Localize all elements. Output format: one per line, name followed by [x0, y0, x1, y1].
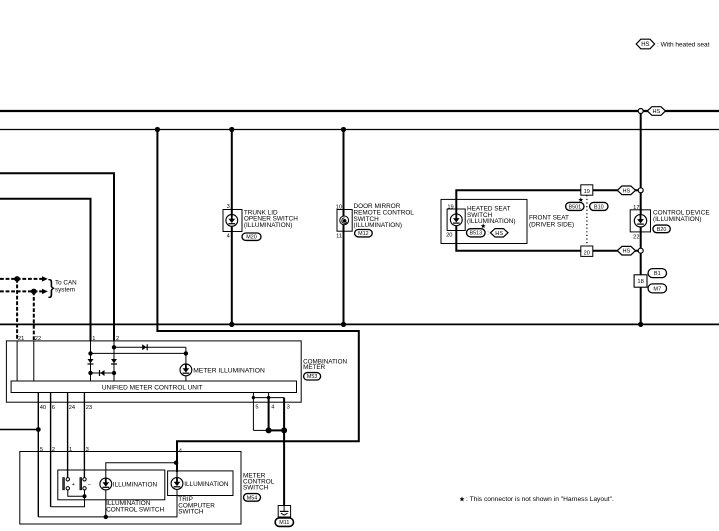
svg-text:B20: B20 — [657, 227, 667, 233]
svg-text:M12: M12 — [358, 231, 369, 237]
svg-text:6: 6 — [52, 405, 55, 411]
svg-text:19: 19 — [447, 204, 453, 210]
svg-text:24: 24 — [69, 405, 75, 411]
svg-text:M11: M11 — [279, 520, 289, 526]
svg-text:(ILLUMINATION): (ILLUMINATION) — [467, 218, 516, 225]
svg-text:1: 1 — [69, 447, 72, 453]
svg-text:B501: B501 — [569, 204, 582, 210]
svg-text:M20: M20 — [246, 235, 257, 241]
svg-text:(ILLUMINATION): (ILLUMINATION) — [354, 222, 403, 229]
svg-text:18: 18 — [637, 279, 643, 285]
svg-text:3: 3 — [86, 447, 89, 453]
svg-text:B10: B10 — [594, 204, 604, 210]
svg-text:(DRIVER SIDE): (DRIVER SIDE) — [529, 221, 574, 228]
svg-text:19: 19 — [584, 189, 590, 195]
svg-text:5: 5 — [40, 447, 43, 453]
svg-text:HS: HS — [653, 109, 661, 115]
svg-text:(ILLUMINATION): (ILLUMINATION) — [653, 216, 702, 223]
svg-text:METER ILLUMINATION: METER ILLUMINATION — [193, 367, 265, 374]
svg-text:M54: M54 — [247, 495, 258, 501]
svg-text:4: 4 — [179, 448, 182, 454]
svg-text:−: − — [88, 482, 91, 488]
svg-text:CONTROL SWITCH: CONTROL SWITCH — [106, 506, 164, 513]
svg-text:HS: HS — [495, 231, 503, 237]
svg-text:: This connector is not shown: : This connector is not shown in "Harnes… — [466, 496, 614, 503]
svg-text:40: 40 — [40, 405, 46, 411]
svg-text:B513: B513 — [470, 231, 483, 237]
svg-text:23: 23 — [86, 405, 92, 411]
svg-text:5: 5 — [255, 404, 258, 410]
svg-text:2: 2 — [116, 336, 119, 342]
svg-text:}: } — [48, 277, 55, 299]
svg-text:ILLUMINATION: ILLUMINATION — [184, 481, 229, 488]
svg-text:2: 2 — [52, 447, 55, 453]
svg-text:M7: M7 — [653, 286, 661, 292]
svg-text:1: 1 — [92, 336, 95, 342]
svg-text:HS: HS — [623, 188, 631, 194]
svg-text:4: 4 — [271, 404, 274, 410]
svg-text:11: 11 — [336, 234, 342, 240]
svg-text:21: 21 — [18, 336, 24, 342]
svg-text:HS: HS — [623, 249, 631, 255]
svg-text:M53: M53 — [307, 374, 318, 380]
svg-text:METER: METER — [303, 364, 325, 371]
svg-text:22: 22 — [35, 336, 41, 342]
svg-text:: With heated seat: : With heated seat — [657, 42, 710, 49]
svg-text:SWITCH: SWITCH — [178, 508, 204, 515]
svg-text:22: 22 — [633, 235, 639, 241]
svg-text:+: + — [72, 482, 75, 488]
svg-text:20: 20 — [446, 233, 452, 239]
svg-text:4: 4 — [227, 234, 230, 240]
svg-text:SWITCH: SWITCH — [243, 485, 269, 492]
svg-text:To CAN: To CAN — [55, 280, 77, 287]
svg-text:HS: HS — [641, 42, 649, 48]
svg-text:3: 3 — [287, 404, 290, 410]
svg-text:system: system — [55, 287, 75, 294]
svg-text:ILLUMINATION: ILLUMINATION — [113, 481, 158, 488]
svg-text:UNIFIED METER CONTROL UNIT: UNIFIED METER CONTROL UNIT — [102, 384, 203, 391]
svg-text:B1: B1 — [654, 271, 661, 277]
svg-text:20: 20 — [584, 250, 590, 256]
svg-text:(ILLUMINATION): (ILLUMINATION) — [244, 222, 293, 229]
